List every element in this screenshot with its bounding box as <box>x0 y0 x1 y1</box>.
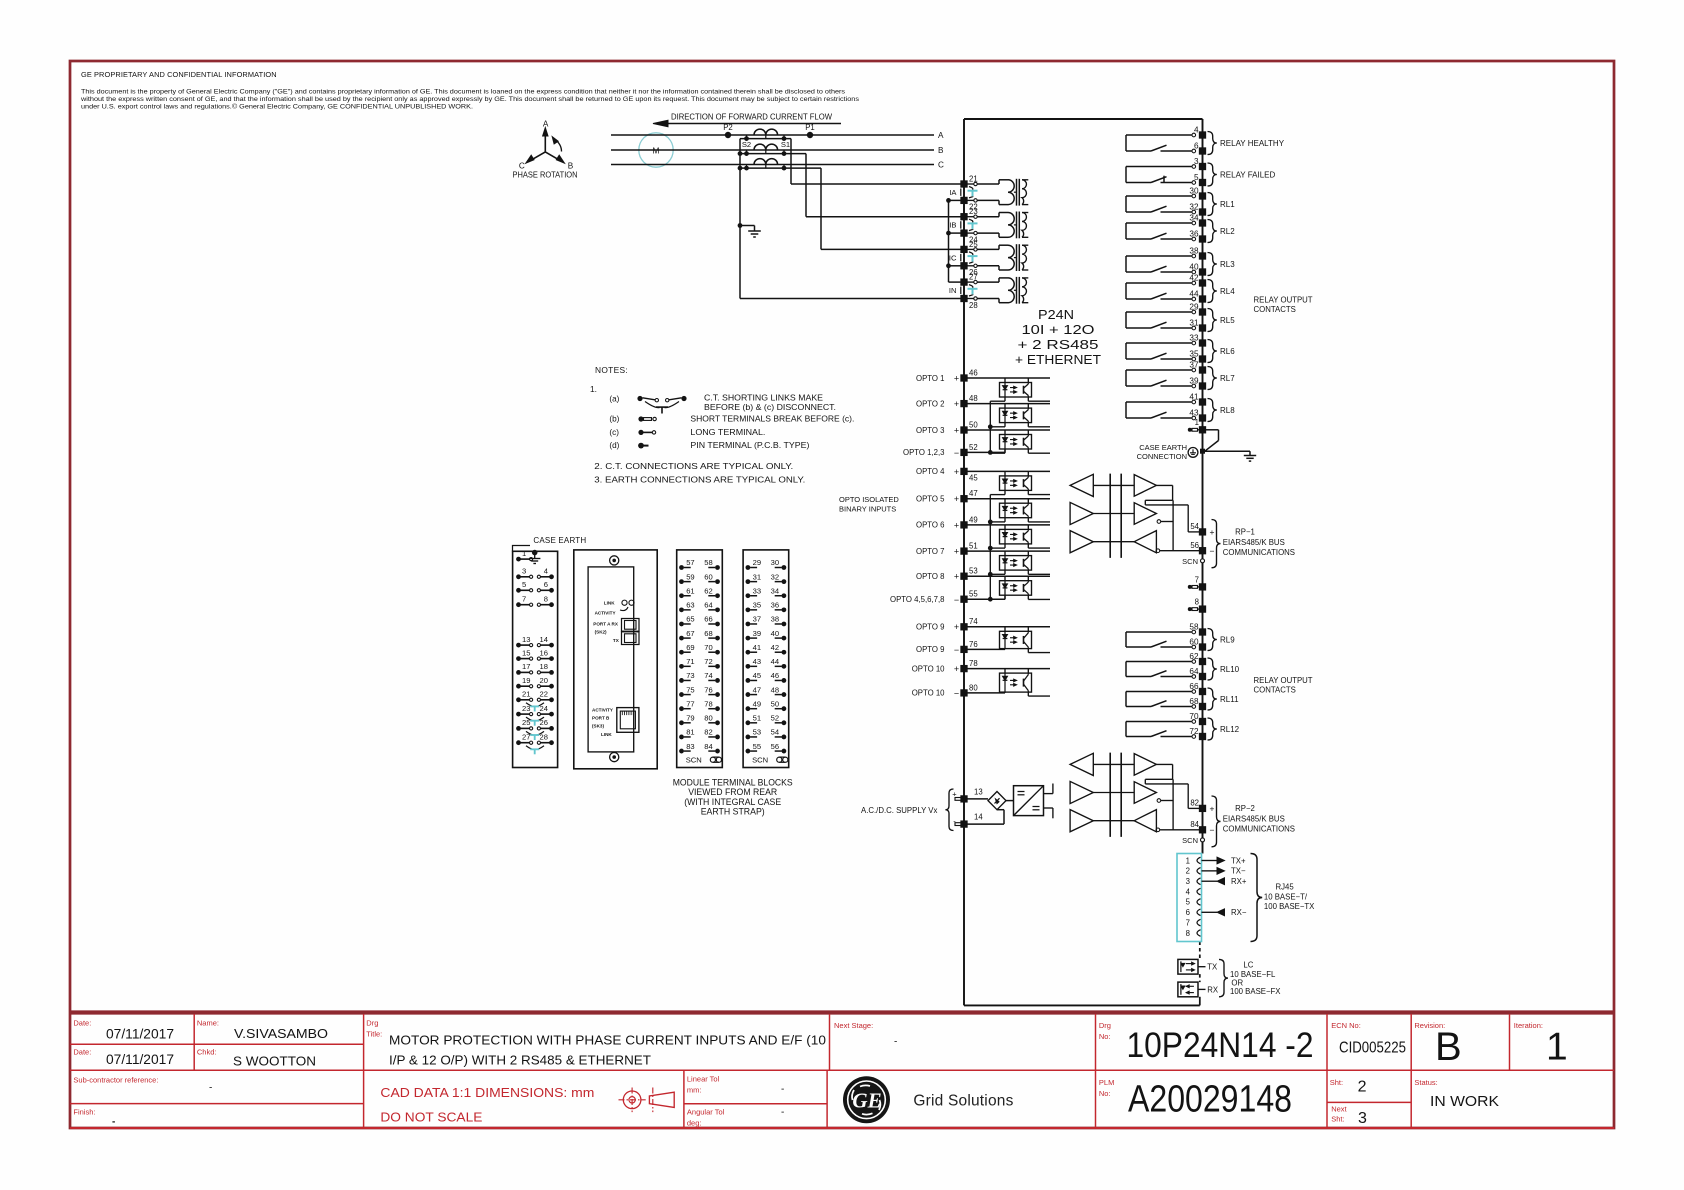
svg-text:84: 84 <box>1190 820 1199 829</box>
svg-text:Next Stage:: Next Stage: <box>834 1021 873 1030</box>
svg-text:47: 47 <box>753 685 761 694</box>
svg-text:B: B <box>1435 1025 1462 1069</box>
svg-text:without the express written co: without the express written consent of G… <box>80 96 860 103</box>
svg-text:CASE EARTH: CASE EARTH <box>1139 443 1187 452</box>
IO terminal block 57-84 <box>677 550 723 768</box>
LC brace <box>1219 959 1228 996</box>
svg-text:LINK: LINK <box>601 732 612 737</box>
terminal 47 OPTO 5+ <box>960 495 967 502</box>
svg-text:60: 60 <box>704 572 712 581</box>
svg-text:82: 82 <box>704 728 712 737</box>
svg-text:OPTO 8: OPTO 8 <box>916 572 944 581</box>
phase line A <box>611 134 934 136</box>
svg-text:10P24N14 -2: 10P24N14 -2 <box>1127 1026 1314 1065</box>
svg-text:18: 18 <box>540 662 548 671</box>
svg-text:-: - <box>781 1084 784 1095</box>
terminal 49 OPTO 6+ <box>960 521 967 528</box>
terminal 25 <box>960 246 967 253</box>
svg-text:P1: P1 <box>805 123 815 132</box>
svg-text:−: − <box>1210 825 1215 835</box>
svg-text:37: 37 <box>1189 360 1199 369</box>
IO terminal block 29-56 <box>743 550 789 768</box>
svg-text:39: 39 <box>1189 376 1199 385</box>
GE logo <box>843 1076 890 1123</box>
svg-text:PHASE ROTATION: PHASE ROTATION <box>513 171 578 180</box>
svg-text:SCN: SCN <box>686 756 702 765</box>
svg-text:SCN: SCN <box>1182 557 1198 566</box>
relay case outline right bus <box>1202 119 1204 854</box>
svg-text:This document is the property: This document is the property of General… <box>81 89 846 96</box>
relay case outline top <box>964 118 1203 120</box>
svg-text:OPTO 9: OPTO 9 <box>916 645 944 654</box>
wire OPTO 6 cathode return <box>1004 544 1006 548</box>
relay contact RL10 terminals 62/64 <box>1126 661 1192 663</box>
phase line C <box>611 164 934 166</box>
svg-text:Date:: Date: <box>73 1019 91 1028</box>
terminal 24 <box>960 229 967 236</box>
svg-text:PLM: PLM <box>1099 1078 1114 1087</box>
optocoupler OPTO 8 <box>964 575 1050 577</box>
svg-text:2. C.T. CONNECTIONS ARE TY: 2. C.T. CONNECTIONS ARE TYPICAL ONLY. <box>594 461 793 471</box>
svg-text:TX: TX <box>613 638 620 643</box>
svg-text:60: 60 <box>1189 637 1199 646</box>
port A fibre connectors <box>622 619 640 632</box>
svg-text:71: 71 <box>686 657 694 666</box>
svg-text:54: 54 <box>1190 522 1199 531</box>
svg-text:-: - <box>781 1107 784 1118</box>
svg-text:35: 35 <box>753 601 761 610</box>
svg-text:36: 36 <box>771 601 779 610</box>
svg-text:Status:: Status: <box>1414 1078 1437 1087</box>
optocoupler OPTO 6 <box>964 524 1050 526</box>
optocoupler OPTO 4 <box>964 470 1050 472</box>
svg-text:2: 2 <box>1358 1079 1367 1096</box>
optocoupler OPTO 5 <box>964 498 1050 500</box>
svg-text:48: 48 <box>771 685 779 694</box>
wire supply 14 to rectifier <box>967 823 1004 825</box>
terminal 28 <box>960 295 967 302</box>
svg-text:B: B <box>938 146 944 155</box>
CT IC internal <box>978 248 1000 250</box>
svg-text:EARTH STRAP): EARTH STRAP) <box>701 807 765 817</box>
svg-text:8: 8 <box>1186 929 1190 938</box>
svg-text:22: 22 <box>540 690 548 699</box>
svg-text:49: 49 <box>969 515 978 524</box>
relay contact RELAY HEALTHY terminals 4/6 <box>1126 134 1192 136</box>
optocoupler OPTO 2 <box>964 403 1050 405</box>
svg-text:21: 21 <box>522 690 530 699</box>
svg-text:−: − <box>954 688 959 698</box>
svg-text:45: 45 <box>969 474 978 483</box>
svg-text:3: 3 <box>1194 157 1199 166</box>
svg-text:-: - <box>112 1117 115 1128</box>
relay contact RL11 terminals 66/68 <box>1126 691 1192 693</box>
svg-text:V.SIVASAMBO: V.SIVASAMBO <box>234 1026 328 1041</box>
svg-text:COMMUNICATIONS: COMMUNICATIONS <box>1223 825 1295 834</box>
title block top bar <box>70 1010 1614 1014</box>
svg-text:(a): (a) <box>609 395 619 404</box>
wire OPTO 3 cathode return <box>1004 449 1006 453</box>
svg-text:RL5: RL5 <box>1220 316 1235 325</box>
svg-text:72: 72 <box>704 657 712 666</box>
svg-text:29: 29 <box>753 558 761 567</box>
terminal 80 OPTO 10- <box>960 689 967 696</box>
ground symbol case earth <box>1249 451 1251 455</box>
svg-text:EIARS485/K BUS: EIARS485/K BUS <box>1223 815 1285 824</box>
wire OPTO 3 emitter stub <box>1027 449 1029 453</box>
svg-text:80: 80 <box>969 683 978 692</box>
svg-text:LINK: LINK <box>604 601 615 606</box>
svg-text:IN WORK: IN WORK <box>1430 1093 1499 1110</box>
svg-text:3: 3 <box>1186 877 1190 886</box>
svg-text:+: + <box>954 520 959 530</box>
node P2 <box>725 132 731 138</box>
svg-text:SCN: SCN <box>752 756 768 765</box>
CT secondary wire phase A with S2 S1 labels <box>740 138 791 140</box>
terminal 22 <box>960 197 967 204</box>
wire S2 common down to terminal 28 <box>739 139 741 299</box>
terminal 13 supply + <box>960 795 967 802</box>
svg-text:A: A <box>938 131 944 140</box>
ground symbol CT star point <box>754 226 756 232</box>
terminal 21 <box>960 180 967 187</box>
svg-text:30: 30 <box>771 558 779 567</box>
svg-text:5: 5 <box>1186 898 1191 907</box>
svg-text:10 BASE−T/: 10 BASE−T/ <box>1264 893 1308 902</box>
svg-text:5: 5 <box>522 580 526 589</box>
wire OPTO 2 cathode return <box>1004 423 1006 427</box>
svg-text:Sht:: Sht: <box>1331 1115 1344 1124</box>
svg-text:70: 70 <box>704 643 712 652</box>
svg-text:S WOOTTON: S WOOTTON <box>233 1054 316 1069</box>
relay contact RL12 terminals 70/72 <box>1126 721 1192 723</box>
svg-text:76: 76 <box>969 640 978 649</box>
svg-text:IA: IA <box>949 188 957 197</box>
svg-text:OPTO 10: OPTO 10 <box>912 664 945 673</box>
return bus wire 22-24-26-27 <box>948 200 950 282</box>
power block terminal 5/6 <box>516 588 521 593</box>
svg-text:50: 50 <box>969 420 978 429</box>
svg-text:6: 6 <box>544 580 548 589</box>
svg-text:4: 4 <box>544 567 548 576</box>
terminal 8 <box>1199 605 1206 612</box>
svg-text:07/11/2017: 07/11/2017 <box>106 1027 174 1042</box>
svg-text:6: 6 <box>1194 141 1199 150</box>
svg-text:LC: LC <box>1243 961 1253 970</box>
opto group1 common bus <box>989 401 991 452</box>
svg-text:80: 80 <box>704 714 712 723</box>
CT shorting link IA <box>969 187 973 190</box>
svg-text:72: 72 <box>1189 727 1199 736</box>
relay contact RL9 terminals 58/60 <box>1126 631 1192 633</box>
svg-text:OPTO 1: OPTO 1 <box>916 374 944 383</box>
svg-text:58: 58 <box>704 558 712 567</box>
svg-text:54: 54 <box>771 728 779 737</box>
supply brace <box>945 789 953 831</box>
svg-text:100 BASE−TX: 100 BASE−TX <box>1264 902 1315 911</box>
svg-text:62: 62 <box>704 586 712 595</box>
svg-text:10I + 12O: 10I + 12O <box>1022 322 1095 337</box>
svg-text:ACTIVITY: ACTIVITY <box>595 611 616 616</box>
svg-text:82: 82 <box>1190 799 1199 808</box>
svg-text:32: 32 <box>1189 202 1199 211</box>
svg-text:17: 17 <box>522 662 530 671</box>
relay contact RELAY FAILED terminals 3/5 <box>1126 166 1192 168</box>
svg-text:P2: P2 <box>723 123 733 132</box>
CT primary phase A <box>754 129 766 135</box>
svg-text:2: 2 <box>1186 867 1190 876</box>
svg-text:TX−: TX− <box>1231 867 1246 876</box>
RS485 port RP-2 <box>1070 753 1093 775</box>
CT primary phase C <box>754 159 766 165</box>
svg-text:OPTO 1,2,3: OPTO 1,2,3 <box>903 448 944 457</box>
svg-text:15: 15 <box>522 648 530 657</box>
svg-text:CONTACTS: CONTACTS <box>1254 305 1296 314</box>
svg-text:CID005225: CID005225 <box>1339 1040 1406 1057</box>
relay contact RL3 terminals 38/40 <box>1126 255 1192 257</box>
svg-text:38: 38 <box>771 615 779 624</box>
svg-text:+: + <box>954 399 959 409</box>
svg-text:25: 25 <box>969 240 978 249</box>
svg-text:RP−2: RP−2 <box>1235 804 1255 813</box>
svg-text:81: 81 <box>686 728 694 737</box>
svg-text:34: 34 <box>771 586 779 595</box>
svg-text:76: 76 <box>704 685 712 694</box>
svg-text:Angular Tol: Angular Tol <box>687 1108 725 1117</box>
svg-text:62: 62 <box>1189 652 1199 661</box>
terminal 23 <box>960 213 967 220</box>
svg-text:ACTIVITY: ACTIVITY <box>592 708 613 713</box>
svg-text:4: 4 <box>1194 125 1199 134</box>
terminal 53 OPTO 8+ <box>960 573 967 580</box>
svg-text:-: - <box>209 1083 212 1094</box>
svg-text:+: + <box>954 547 959 557</box>
svg-text:84: 84 <box>704 742 712 751</box>
svg-text:77: 77 <box>686 699 694 708</box>
svg-text:07/11/2017: 07/11/2017 <box>106 1052 174 1067</box>
opto group2 common bus <box>989 495 991 600</box>
svg-text:31: 31 <box>753 572 761 581</box>
svg-text:RL12: RL12 <box>1220 725 1240 734</box>
svg-text:52: 52 <box>969 443 978 452</box>
svg-text:28: 28 <box>969 301 978 310</box>
terminal 14 supply - <box>960 820 967 827</box>
CT secondary wire phase B <box>740 153 806 155</box>
svg-text:RL3: RL3 <box>1220 260 1235 269</box>
CT IA internal <box>978 183 1000 185</box>
node P1 <box>807 132 813 138</box>
power block terminal 3/4 <box>516 574 521 579</box>
power terminal block outline <box>513 551 558 767</box>
svg-text:74: 74 <box>704 671 712 680</box>
svg-text:1: 1 <box>522 549 526 558</box>
svg-text:SCN: SCN <box>1182 836 1198 845</box>
svg-text:Linear Tol: Linear Tol <box>687 1075 720 1084</box>
svg-text:RL2: RL2 <box>1220 227 1235 236</box>
svg-text:5: 5 <box>1194 173 1199 182</box>
svg-text:(WITH INTEGRAL CASE: (WITH INTEGRAL CASE <box>684 797 781 807</box>
svg-text:Drg: Drg <box>1099 1021 1111 1030</box>
svg-text:34: 34 <box>1189 213 1199 222</box>
svg-text:41: 41 <box>1189 392 1199 401</box>
wire rectifier to PSU <box>1006 800 1014 802</box>
svg-text:46: 46 <box>771 671 779 680</box>
terminal 74 OPTO 9+ <box>960 623 967 630</box>
terminal 1 case earth <box>1199 426 1206 433</box>
wire OPTO 1 cathode return <box>1004 397 1006 401</box>
svg-text:OPTO 9: OPTO 9 <box>916 623 944 632</box>
svg-text:−: − <box>954 595 959 605</box>
svg-text:Finish:: Finish: <box>73 1108 95 1117</box>
svg-text:6: 6 <box>1186 908 1190 917</box>
svg-text:Name:: Name: <box>197 1019 219 1028</box>
svg-text:−: − <box>1210 546 1215 556</box>
svg-text:1: 1 <box>1546 1026 1568 1069</box>
svg-text:66: 66 <box>1189 682 1199 691</box>
svg-text:LONG TERMINAL.: LONG TERMINAL. <box>690 428 765 437</box>
svg-text:COMMUNICATIONS: COMMUNICATIONS <box>1223 548 1295 557</box>
comms module inner panel <box>588 567 634 752</box>
svg-text:−: − <box>954 448 959 458</box>
svg-text:BEFORE (b) & (c) DISCONNECT.: BEFORE (b) & (c) DISCONNECT. <box>704 403 836 412</box>
relay contact RL4 terminals 42/44 <box>1126 282 1192 284</box>
svg-text:IC: IC <box>949 253 957 262</box>
svg-text:OPTO ISOLATED: OPTO ISOLATED <box>839 495 899 504</box>
svg-text:+: + <box>1210 527 1215 537</box>
svg-text:-: - <box>894 1037 897 1048</box>
svg-text:A.C./D.C. SUPPLY Vx: A.C./D.C. SUPPLY Vx <box>861 806 938 815</box>
svg-text:36: 36 <box>1189 229 1199 238</box>
svg-text:S1: S1 <box>781 140 790 149</box>
svg-text:deg:: deg: <box>687 1119 702 1128</box>
svg-text:43: 43 <box>1189 408 1199 417</box>
wire OPTO 8 cathode return <box>1004 595 1006 599</box>
optocoupler OPTO 3 <box>964 429 1050 431</box>
svg-text:(SK3): (SK3) <box>592 724 604 729</box>
CT shorting link IC <box>969 252 973 255</box>
CT shorting link IN <box>969 285 973 288</box>
optocoupler OPTO 9 <box>964 626 1050 628</box>
terminal 26 <box>960 262 967 269</box>
svg-text:ECN No:: ECN No: <box>1331 1021 1361 1030</box>
case earth symbol on case <box>1188 448 1198 458</box>
RJ45 signal RX− <box>1202 911 1218 913</box>
svg-text:OPTO 4: OPTO 4 <box>916 467 945 476</box>
svg-text:EIARS485/K BUS: EIARS485/K BUS <box>1223 538 1285 547</box>
svg-text:CONTACTS: CONTACTS <box>1254 686 1296 695</box>
svg-text:67: 67 <box>686 629 694 638</box>
svg-text:74: 74 <box>969 617 978 626</box>
svg-text:P24N: P24N <box>1038 307 1074 322</box>
svg-text:+: + <box>1210 804 1215 814</box>
power block terminal 7/8 <box>516 602 521 607</box>
svg-text:69: 69 <box>686 643 694 652</box>
svg-text:8: 8 <box>544 595 548 604</box>
forward current flow arrow <box>662 123 841 125</box>
wire OPTO 1 emitter stub <box>1027 397 1029 401</box>
svg-text:44: 44 <box>771 657 779 666</box>
svg-text:IN: IN <box>949 286 957 295</box>
power block terminal 1 <box>516 557 521 562</box>
svg-text:100 BASE−FX: 100 BASE−FX <box>1230 987 1281 996</box>
svg-text:56: 56 <box>771 742 779 751</box>
CT shorting link IB <box>969 219 973 222</box>
relay contact RL2 terminals 34/36 <box>1126 222 1192 224</box>
svg-text:RL4: RL4 <box>1220 287 1235 296</box>
svg-text:(SK2): (SK2) <box>595 630 607 635</box>
svg-text:51: 51 <box>969 542 978 551</box>
terminal 52 OPTO 1,2,3 minus <box>960 449 967 456</box>
CT primary phase B <box>754 144 766 150</box>
phase line B <box>611 149 934 151</box>
svg-text:RX: RX <box>1207 985 1219 994</box>
svg-text:+: + <box>954 664 959 674</box>
svg-text:73: 73 <box>686 671 694 680</box>
svg-text:RELAY FAILED: RELAY FAILED <box>1220 170 1276 179</box>
svg-text:48: 48 <box>969 394 978 403</box>
svg-text:VIEWED FROM REAR: VIEWED FROM REAR <box>688 787 777 797</box>
svg-text:A: A <box>543 120 549 129</box>
wire OPTO 6 emitter stub <box>1027 544 1029 548</box>
svg-text:68: 68 <box>704 629 712 638</box>
svg-text:RX−: RX− <box>1231 908 1247 917</box>
svg-text:RL1: RL1 <box>1220 200 1235 209</box>
svg-text:BINARY INPUTS: BINARY INPUTS <box>839 505 896 514</box>
svg-text:40: 40 <box>1189 262 1199 271</box>
svg-text:Sub-contractor reference:: Sub-contractor reference: <box>73 1076 158 1085</box>
wire supply 13 to rectifier <box>967 798 988 800</box>
svg-text:RL8: RL8 <box>1220 406 1235 415</box>
svg-text:61: 61 <box>686 586 694 595</box>
svg-text:53: 53 <box>969 567 978 576</box>
power block terminal 27/28 <box>516 740 521 745</box>
terminal 51 OPTO 7+ <box>960 547 967 554</box>
svg-text:Title:: Title: <box>366 1030 382 1039</box>
svg-text:27: 27 <box>969 273 978 282</box>
svg-text:+ ETHERNET: + ETHERNET <box>1015 352 1101 367</box>
svg-text:53: 53 <box>753 728 761 737</box>
svg-text:Chkd:: Chkd: <box>197 1048 217 1057</box>
terminal 55 OPTO 4-8 minus <box>960 596 967 603</box>
wire OPTO 7 cathode return <box>1004 570 1006 574</box>
terminal 78 OPTO 10+ <box>960 665 967 672</box>
relay contact RL8 terminals 41/43 <box>1126 401 1192 403</box>
svg-text:GE: GE <box>852 1088 881 1112</box>
svg-text:(c): (c) <box>609 428 619 437</box>
svg-text:C: C <box>938 160 944 169</box>
svg-text:21: 21 <box>969 174 978 183</box>
svg-text:78: 78 <box>704 699 712 708</box>
svg-text:1: 1 <box>1186 856 1190 865</box>
svg-text:RJ45: RJ45 <box>1276 883 1295 892</box>
panel screw bottom <box>610 753 619 762</box>
power block terminal 15/16 <box>516 656 521 661</box>
power block terminal 23/24 <box>516 712 521 717</box>
svg-text:NOTES:: NOTES: <box>595 365 628 375</box>
svg-text:under U.S. export control laws: under U.S. export control laws and regul… <box>81 103 473 111</box>
svg-text:7: 7 <box>1186 918 1190 927</box>
svg-text:Sht:: Sht: <box>1330 1078 1343 1087</box>
power block terminal 21/22 <box>516 697 521 702</box>
relay contact RL6 terminals 33/35 <box>1126 342 1192 344</box>
svg-text:B: B <box>568 162 574 171</box>
svg-text:66: 66 <box>704 615 712 624</box>
comms module panel outline <box>574 550 657 769</box>
svg-text:83: 83 <box>686 742 694 751</box>
power block terminal 19/20 <box>516 684 521 689</box>
svg-text:13: 13 <box>522 635 530 644</box>
PSU output wires <box>1044 793 1053 795</box>
